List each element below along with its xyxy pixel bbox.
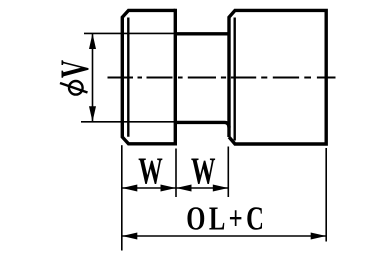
label oV: diameter symbol slash <box>60 83 88 93</box>
flange chamfer line <box>127 18 129 137</box>
svg-text:W: W <box>191 150 216 192</box>
flange right edge <box>174 9 177 146</box>
extension line W right <box>227 147 229 198</box>
extension line oV bottom <box>81 121 175 123</box>
arrowhead W mid-right <box>176 185 192 192</box>
centerline (dash-dot axis) <box>108 76 336 78</box>
arrowhead oV up <box>89 33 96 49</box>
label oV: diameter symbol circle <box>69 81 83 95</box>
svg-text:V: V <box>53 60 97 78</box>
arrowhead OL+C right <box>311 233 327 240</box>
groove bottom edge <box>175 122 229 127</box>
body outline <box>229 10 326 144</box>
arrowhead W far-left <box>122 185 138 192</box>
arrowhead oV down <box>89 106 96 122</box>
svg-text:OL+C: OL+C <box>186 200 267 238</box>
dimension line oV <box>92 33 94 121</box>
body chamfer line <box>233 18 235 141</box>
svg-text:W: W <box>138 150 163 192</box>
extension line oV top <box>84 32 175 34</box>
dimension line W <box>122 187 229 189</box>
dimension line OL+C <box>122 235 326 237</box>
arrowhead W far-right <box>213 185 229 192</box>
arrowhead W mid-left <box>161 185 177 192</box>
arrowhead OL+C left <box>122 233 138 240</box>
flange outline <box>122 10 175 143</box>
extension line OL+C right <box>325 148 327 242</box>
extension line W middle <box>175 149 177 198</box>
extension line W left <box>121 145 123 250</box>
groove top edge <box>175 32 229 35</box>
